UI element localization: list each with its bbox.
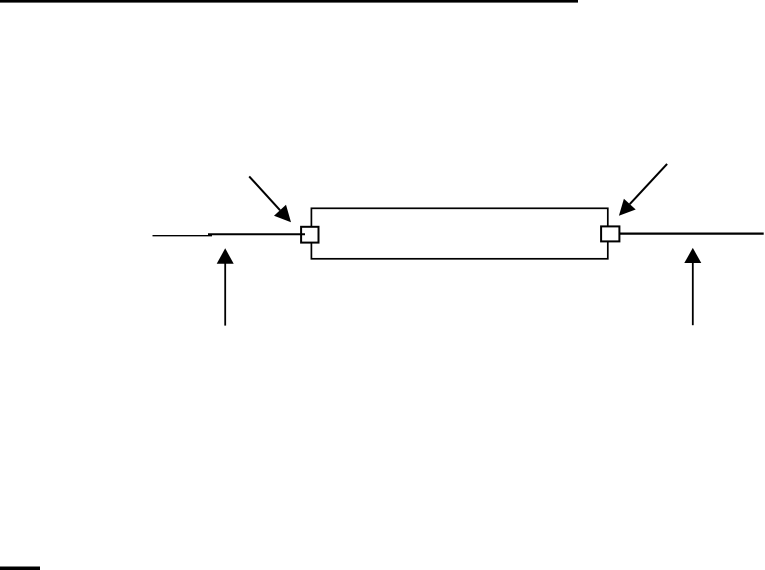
component body <box>311 208 607 258</box>
left callout arrow to termination <box>249 176 291 222</box>
right termination pad <box>601 226 619 241</box>
right callout arrow to termination <box>619 164 667 216</box>
left callout arrow to lead <box>217 248 234 325</box>
left termination pad <box>301 227 318 243</box>
footnote rule <box>0 567 40 570</box>
right lead wire <box>620 232 764 234</box>
right callout arrow to lead <box>684 248 701 325</box>
left lead wire <box>153 235 213 237</box>
header rule <box>0 0 578 3</box>
